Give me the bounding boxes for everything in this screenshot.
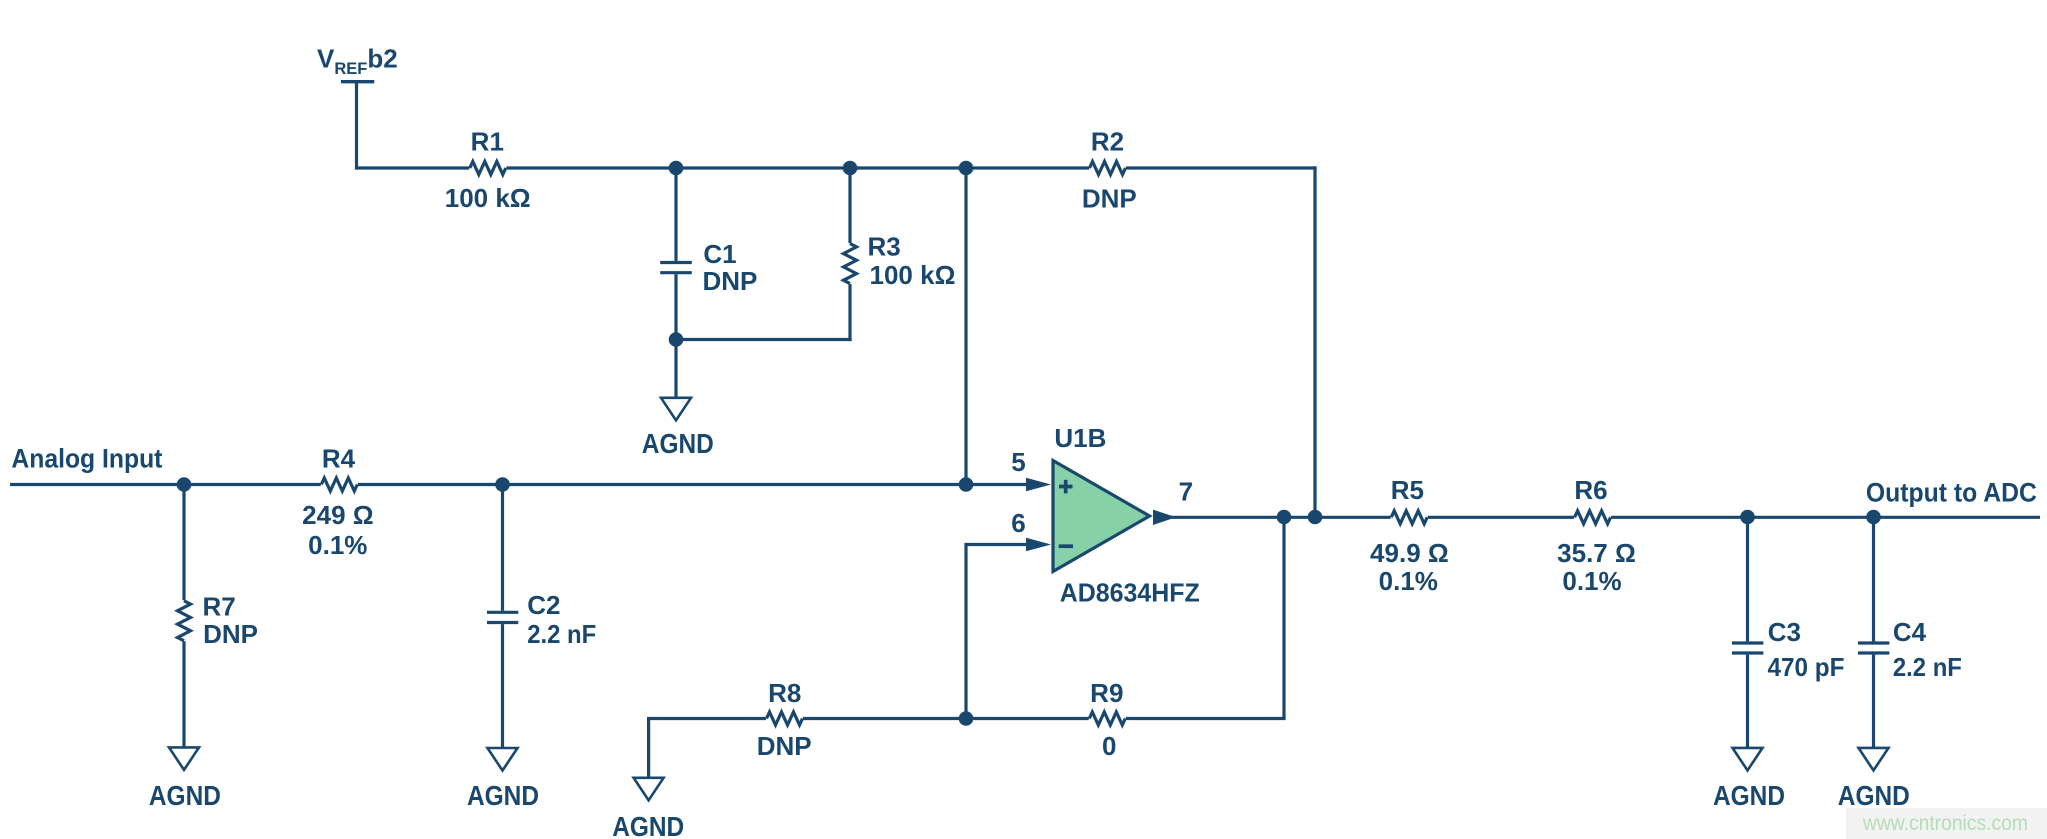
svg-text:R4: R4 — [322, 444, 356, 474]
ground AGND under R8 — [634, 778, 664, 801]
junction output at C3 — [1740, 510, 1755, 525]
wire node to AGND under C1 — [674, 340, 677, 399]
svg-text:0.1%: 0.1% — [308, 530, 367, 560]
wire R6 to output — [1611, 516, 2040, 519]
svg-text:U1B: U1B — [1054, 423, 1106, 453]
wire R5 to R6 — [1428, 516, 1574, 519]
capacitor C2 — [487, 611, 518, 614]
svg-text:35.7 Ω: 35.7 Ω — [1557, 538, 1636, 568]
wire top net R1 to R2 — [506, 166, 1089, 169]
resistor R3 — [844, 244, 857, 284]
junction output at C4 — [1866, 510, 1881, 525]
wire R8 AGND riser — [647, 717, 650, 778]
svg-text:Output to ADC: Output to ADC — [1866, 478, 2037, 508]
junction top net at C1 — [669, 161, 684, 176]
wire C1 to node — [674, 274, 677, 339]
svg-text:R6: R6 — [1574, 475, 1607, 505]
svg-text:C1: C1 — [703, 239, 736, 269]
ground AGND under C4 — [1859, 748, 1889, 771]
wire input to C2 — [501, 485, 504, 611]
plus symbol noninverting — [1059, 480, 1073, 494]
resistor R9 — [1089, 712, 1125, 725]
svg-text:0: 0 — [1102, 731, 1116, 761]
svg-text:R7: R7 — [203, 592, 236, 622]
minus symbol inverting — [1059, 544, 1073, 548]
svg-text:0.1%: 0.1% — [1562, 566, 1621, 596]
svg-text:AGND: AGND — [1838, 780, 1910, 811]
wire R9 to riser — [1126, 717, 1286, 720]
svg-text:6: 6 — [1011, 508, 1025, 538]
wire AGND to R8 — [649, 717, 766, 720]
junction output to feedback — [1308, 510, 1323, 525]
svg-text:100 kΩ: 100 kΩ — [870, 260, 956, 290]
pin arrow output — [1153, 510, 1176, 525]
op-amp U1B body — [1053, 461, 1150, 572]
junction input at C2 — [495, 477, 510, 492]
wire analog input to R4 — [10, 483, 321, 486]
capacitor C3 — [1732, 641, 1763, 644]
svg-text:249 Ω: 249 Ω — [302, 500, 373, 530]
svg-text:DNP: DNP — [703, 266, 758, 296]
wire feedback vertical — [1313, 166, 1316, 517]
power symbol VREF bar — [341, 80, 374, 83]
ground AGND under C2 — [488, 748, 518, 771]
svg-text:R1: R1 — [471, 127, 504, 157]
wire C4 to AGND — [1872, 655, 1875, 749]
resistor R6 — [1575, 511, 1611, 524]
resistor R1 — [470, 162, 506, 175]
svg-text:R8: R8 — [768, 678, 801, 708]
wire riser to output junction — [1282, 517, 1285, 719]
junction input at feedforward — [959, 477, 974, 492]
junction C1 R3 node — [669, 332, 684, 347]
svg-text:470 pF: 470 pF — [1768, 652, 1845, 682]
ground AGND under R7 — [169, 747, 199, 770]
svg-text:R5: R5 — [1391, 475, 1424, 505]
resistor R4 — [321, 478, 357, 491]
junction top net at R3 — [843, 161, 858, 176]
svg-text:2.2 nF: 2.2 nF — [1893, 652, 1962, 682]
svg-text:C3: C3 — [1768, 617, 1801, 647]
wire C3 to AGND — [1746, 655, 1749, 749]
wire VREF stem — [355, 82, 358, 170]
svg-text:R3: R3 — [868, 232, 901, 262]
svg-text:2.2 nF: 2.2 nF — [527, 619, 596, 649]
wire top net to R3 — [848, 168, 851, 243]
junction inverting feedback — [959, 711, 974, 726]
wire inverting input vertical — [964, 543, 967, 719]
svg-text:C2: C2 — [527, 590, 560, 620]
svg-text:VREFb2: VREFb2 — [317, 44, 398, 79]
wire top net down to input junction — [964, 168, 967, 485]
wire junction to R9 — [966, 717, 1089, 720]
wire top net R2 to corner — [1126, 166, 1317, 169]
resistor R7 — [178, 601, 191, 641]
wire output to C3 — [1746, 517, 1749, 641]
svg-text:DNP: DNP — [203, 619, 258, 649]
ground AGND under C1 — [661, 398, 691, 421]
svg-text:5: 5 — [1011, 447, 1025, 477]
svg-text:AGND: AGND — [1713, 780, 1785, 811]
resistor R5 — [1391, 511, 1427, 524]
svg-text:7: 7 — [1179, 477, 1193, 507]
svg-text:www.cntronics.com: www.cntronics.com — [1862, 812, 2028, 835]
svg-text:DNP: DNP — [1082, 184, 1137, 214]
wire R3 to node — [848, 284, 851, 341]
svg-text:Analog Input: Analog Input — [11, 444, 162, 474]
wire output to C4 — [1872, 517, 1875, 641]
pin arrow inverting input — [1026, 538, 1051, 551]
svg-text:100 kΩ: 100 kΩ — [445, 183, 531, 213]
svg-text:C4: C4 — [1893, 617, 1927, 647]
resistor R8 — [767, 712, 803, 725]
junction input at R7 — [177, 477, 192, 492]
svg-text:R2: R2 — [1091, 127, 1124, 157]
wire R4 to noninverting input — [358, 483, 1027, 486]
watermark background — [1846, 808, 2047, 839]
wire R7 to AGND — [182, 641, 185, 748]
svg-text:R9: R9 — [1090, 678, 1123, 708]
svg-text:AGND: AGND — [612, 811, 684, 839]
wire top net left of R1 — [357, 166, 470, 169]
resistor R2 — [1090, 162, 1126, 175]
svg-text:AGND: AGND — [642, 428, 714, 459]
pin arrow noninverting input — [1026, 478, 1051, 491]
ground AGND under C3 — [1733, 748, 1763, 771]
wire top net to C1 — [674, 168, 677, 261]
wire R8 to junction — [803, 717, 966, 720]
svg-text:AGND: AGND — [467, 780, 539, 811]
capacitor C1 — [660, 261, 692, 264]
junction output to R9 — [1277, 510, 1292, 525]
wire C1 node to R3 bottom — [676, 338, 852, 341]
svg-text:0.1%: 0.1% — [1379, 566, 1438, 596]
svg-text:DNP: DNP — [757, 731, 812, 761]
svg-text:AGND: AGND — [149, 780, 221, 811]
wire inverting input horizontal — [966, 543, 1027, 546]
wire C2 to AGND — [501, 624, 504, 748]
svg-text:49.9 Ω: 49.9 Ω — [1370, 538, 1449, 568]
wire input to R7 — [182, 485, 185, 601]
junction top net to noninverting input — [959, 161, 974, 176]
capacitor C4 — [1858, 641, 1889, 644]
wire output to R5 — [1155, 516, 1391, 519]
svg-text:AD8634HFZ: AD8634HFZ — [1060, 578, 1200, 608]
